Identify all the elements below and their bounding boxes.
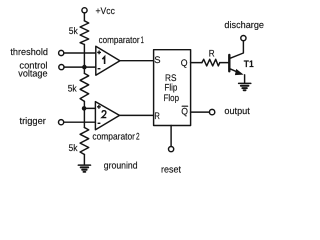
svg-text:1: 1	[141, 35, 144, 46]
svg-text:voltage: voltage	[18, 69, 47, 80]
svg-text:output: output	[224, 106, 250, 117]
svg-text:2: 2	[136, 131, 140, 142]
svg-text:R: R	[209, 49, 215, 60]
svg-text:R: R	[154, 111, 160, 122]
svg-text:grounind: grounind	[104, 161, 138, 172]
svg-text:5k: 5k	[69, 26, 78, 37]
svg-text:5k: 5k	[69, 143, 78, 154]
svg-text:reset: reset	[161, 165, 181, 176]
svg-text:Q: Q	[181, 107, 188, 118]
svg-text:discharge: discharge	[224, 20, 264, 31]
svg-text:+Vcc: +Vcc	[96, 6, 116, 17]
svg-text:trigger: trigger	[20, 116, 46, 127]
svg-text:S: S	[154, 55, 160, 66]
svg-text:T1: T1	[244, 59, 255, 70]
svg-text:Flip: Flip	[164, 83, 177, 94]
svg-text:Q: Q	[181, 58, 188, 69]
svg-text:comparator: comparator	[92, 131, 135, 142]
svg-text:comparator: comparator	[99, 35, 140, 46]
svg-text:Flop: Flop	[164, 93, 180, 104]
svg-text:5k: 5k	[68, 83, 77, 94]
svg-text:threshold: threshold	[10, 47, 48, 58]
